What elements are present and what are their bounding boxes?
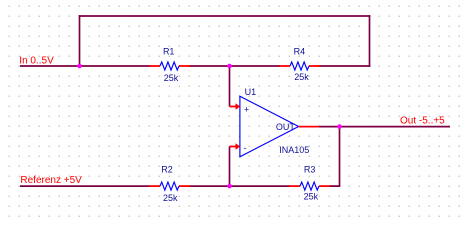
pin: - input with arrow — [230, 146, 236, 148]
svg-text:INA105: INA105 — [279, 145, 309, 155]
pin: R2 left lead — [149, 185, 160, 187]
wire: left vertical riser from In node up to top feedback run — [79, 15, 81, 67]
svg-text:25k: 25k — [304, 192, 319, 202]
pin: R1 left lead — [149, 65, 160, 67]
wire: vertical from node A down to op-amp + input pin — [229, 66, 231, 107]
svg-text:-: - — [244, 143, 247, 153]
svg-text:Out -5..+5: Out -5..+5 — [400, 115, 445, 126]
junction: In node at left riser — [77, 64, 82, 69]
wire: segment from R3 right lead to output vertical — [329, 185, 340, 187]
svg-text:Referenz +5V: Referenz +5V — [20, 175, 82, 186]
svg-text:25k: 25k — [163, 193, 178, 203]
wire: In net horizontal segment (left, under "In 0..5V" label) — [20, 65, 150, 67]
junction: output node (OUT/R3/Out net) — [337, 124, 342, 129]
pin: R4 left lead — [279, 65, 290, 67]
body: R1 zigzag — [160, 62, 179, 70]
pin: R3 left lead — [289, 185, 300, 187]
svg-text:+: + — [244, 104, 249, 114]
wire: right vertical drop from top run down to R4 right lead — [369, 15, 371, 67]
pin: + input with arrow — [230, 106, 236, 108]
wire: output net horizontal to "Out -5..+5" — [319, 126, 451, 128]
svg-text:U1: U1 — [245, 87, 257, 97]
pin: R1 right lead — [179, 65, 190, 67]
body: R4 zigzag — [290, 62, 309, 70]
pin: R4 right lead — [309, 65, 320, 67]
body: R3 zigzag — [300, 182, 319, 190]
resistor R2 25k — [149, 164, 190, 203]
wire: vertical from node B up to op-amp - input pin — [229, 147, 231, 187]
wire: vertical from output node down to R3 right lead — [339, 127, 341, 187]
wire: segment from R4 right lead to right vertical corner — [319, 65, 370, 67]
wire: segment between R2 and R3 — [189, 185, 290, 187]
svg-text:25k: 25k — [294, 72, 309, 82]
pin: output lead — [299, 126, 319, 128]
body: triangle — [240, 96, 299, 157]
pin: R3 right lead — [319, 185, 330, 187]
resistor R4 25k — [279, 47, 320, 83]
svg-text:In 0..5V: In 0..5V — [19, 55, 54, 66]
wire: segment between R1 and R4 — [189, 65, 280, 67]
junction: node B (R2/R3/-input) — [227, 184, 232, 189]
body: R2 zigzag — [160, 182, 179, 190]
svg-text:25k: 25k — [164, 73, 179, 83]
op-amp U1 INA105 — [230, 87, 320, 157]
wire: Referenz net horizontal segment (left, under "Referenz +5V" label) — [20, 185, 150, 187]
svg-text:R1: R1 — [163, 47, 175, 57]
svg-text:R2: R2 — [161, 164, 173, 174]
svg-text:OUT: OUT — [276, 122, 296, 132]
resistor R3 25k — [289, 165, 330, 202]
wire: top horizontal run — [79, 15, 371, 17]
svg-text:R3: R3 — [304, 165, 316, 175]
pin: R2 right lead — [179, 185, 190, 187]
svg-text:R4: R4 — [294, 47, 306, 57]
resistor R1 25k — [149, 47, 190, 83]
junction: node A (R1/R4/+input) — [227, 64, 232, 69]
